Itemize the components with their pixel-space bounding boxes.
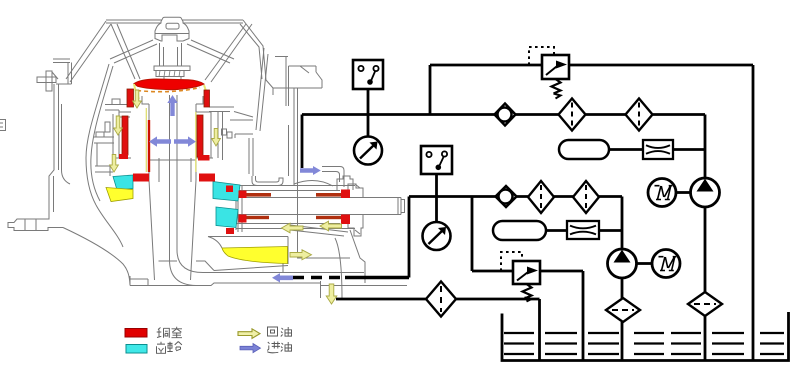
right wall [273,88,322,186]
relief valve RV1 [529,47,569,99]
oil arrow yellow down D [110,155,119,173]
wire switch2 stem [435,174,438,222]
bowl support box right [235,134,253,176]
right bearing housing [196,107,234,160]
pump P1 [691,178,720,207]
wire accumulator2 to restrictor2 [546,229,622,232]
shaft end cap [398,198,405,215]
oil arrow yellow down E [326,284,337,304]
wire machine supply drop x=302 [301,115,304,169]
motor M2 [652,250,680,278]
wire supply2 dashes [293,276,345,279]
funnel outer left diagonal [66,21,111,82]
legend arrow return oil [238,329,260,339]
eccentric red blocks [133,174,149,182]
left flange bracket [37,71,58,91]
left top ledge [53,59,72,84]
spider cap [155,17,189,33]
filter F1 [559,99,586,131]
funnel inner left diagonal [111,24,140,79]
filter F3 [528,181,554,213]
check valve CV2 [496,186,517,207]
bearing support ledges [94,122,114,172]
left edge bracket [0,120,6,131]
accumulator A2 [493,221,546,240]
right upper bracket [275,57,322,107]
oil arrow yellow left G [282,223,304,233]
suction strainer S2 [606,298,640,322]
center bore pipe [170,95,365,286]
sump tray [159,237,289,274]
bowl inner curve [86,64,109,205]
restrictor R2 [567,221,599,239]
left upper ledges [105,99,130,117]
machine bottom [129,276,407,286]
label tao [172,327,183,338]
eccentric edges [149,158,242,232]
oil wedge yellow left [106,188,133,202]
funnel inner right diagonal [205,24,252,82]
check valve CV1 [495,104,516,126]
spider shoulder [155,34,189,42]
wire x=430 drop to main line [429,65,432,115]
bushing red long-left [122,116,128,155]
legend arrow inlet oil [240,343,261,352]
restrictor R1 [643,140,673,159]
wire return line y=299 [336,299,540,360]
wire main lube line y=114.5 [302,113,705,116]
accumulator A1 [559,140,609,159]
supply pipe to countershaft [322,167,344,188]
wire top relief line y=65 [430,64,753,67]
wire right main drop x=753 [752,65,755,360]
oil arrow yellow down B [114,116,123,135]
suction strainer S1 [688,292,722,316]
relief valve RV2 [501,252,540,302]
legend swatch cyan [126,345,147,354]
left wall [49,84,59,212]
cone shaft edges [149,104,196,280]
label hui [268,327,278,336]
funnel outer right diagonal [240,20,273,88]
spider arms [110,40,234,63]
label lun [167,342,182,352]
label chi [157,342,166,354]
oil tank [502,312,789,361]
wire switch1 stem [367,89,370,136]
gear cyan right upper [213,182,240,202]
motor M1 [648,179,676,207]
pressure switch PS1 [353,60,383,89]
legend swatch red [125,329,147,338]
label you2 [281,342,292,352]
lower right frame [290,180,348,236]
pressure switch PS2 [421,146,452,174]
shaft edge red lines [148,120,150,172]
main shaft column [160,43,182,66]
countershaft bushing upper [244,193,271,197]
wire accumulator1 to restrictor1 [609,148,705,151]
bushing red long-right [197,115,203,157]
gear cyan right lower [216,207,238,228]
wire supply2 drop x=409 [408,197,411,278]
oil arrow blue right L [300,166,321,175]
wire pump1 riser x=705 [704,115,707,361]
right housing bolts [222,129,227,135]
sump oil [222,247,288,264]
return filter F5 [426,282,456,317]
left bearing housing [110,112,131,176]
label tong [157,328,170,338]
label jin [267,342,280,353]
top frame lines [106,20,243,23]
wire pump2 riser x=622 [621,197,624,361]
wire motor1-pump1 link [676,191,691,194]
mantle red crescent [134,79,204,90]
filter F4 [573,181,599,213]
oil arrow yellow right H [290,250,312,260]
wire relief2 branch x=472 [472,197,583,361]
oil arrow blue left J [149,136,171,146]
countershaft housing [236,186,401,231]
countershaft top fitting [337,176,353,190]
wire motor2-pump2 link [637,262,653,265]
oil arrow yellow down A [133,90,142,108]
bushing red top-left [127,89,134,107]
label you1 [281,327,292,337]
oil arrow yellow left F [320,221,342,231]
bushing red top-right [204,90,210,107]
left foot [8,212,63,231]
shaft flange [154,66,190,71]
bowl liner right [256,48,268,131]
base slope curve [63,228,130,286]
pinion red bits [226,186,233,193]
filter F2 [626,99,653,131]
pressure gauge G2 [423,222,451,250]
pressure gauge G1 [354,137,382,165]
pump P2 [608,249,637,278]
oil arrow yellow down C [212,129,221,147]
countershaft end caps [348,184,363,236]
oil arrow blue right K [174,136,196,146]
oil trough J [252,176,283,186]
oil arrow blue up [167,95,177,116]
wire bus2 y=196.5 [409,195,622,198]
right mid frame [230,112,253,121]
gear cyan left [113,175,133,190]
oil arrow blue left M [272,273,293,282]
countershaft bushing lower [244,216,269,219]
